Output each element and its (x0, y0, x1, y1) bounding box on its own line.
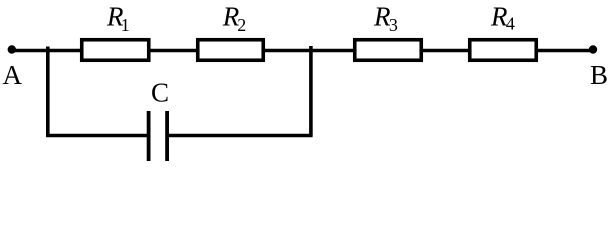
wire bottom left (46, 134, 149, 138)
svg-text:C: C (151, 78, 169, 108)
svg-text:A: A (3, 60, 23, 90)
capacitor C right plate (165, 111, 169, 161)
node A (8, 45, 16, 53)
svg-text:B: B (590, 60, 608, 90)
wire R4 to B (537, 49, 594, 53)
wire R3 to R4 (422, 49, 470, 53)
wire R1 to R2 (149, 49, 198, 53)
wire bottom right (167, 134, 312, 138)
resistor R3 (355, 40, 422, 61)
wire R2 to R3 (264, 49, 355, 53)
capacitor C left plate (147, 111, 151, 161)
wire A to R1 (12, 49, 82, 53)
resistor R1 (82, 40, 149, 61)
resistor R2 (198, 40, 264, 61)
svg-text:4: 4 (506, 14, 515, 34)
resistor R4 (470, 40, 537, 61)
svg-text:2: 2 (237, 15, 246, 35)
svg-text:1: 1 (121, 15, 130, 35)
wire junction right vertical (309, 46, 313, 136)
node B (589, 45, 597, 53)
wire junction left vertical (46, 47, 50, 136)
svg-text:3: 3 (389, 15, 398, 35)
